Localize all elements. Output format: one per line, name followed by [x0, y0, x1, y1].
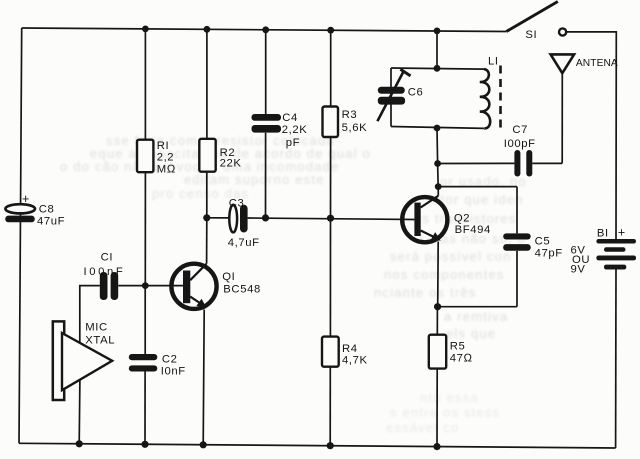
svg-text:C3: C3	[229, 198, 245, 210]
wire mic bottom to ground	[78, 380, 81, 444]
wire left rail	[19, 28, 22, 443]
svg-text:C8: C8	[39, 204, 55, 216]
node top rail C4	[262, 26, 269, 33]
svg-text:LI: LI	[488, 56, 499, 68]
svg-text:C4: C4	[282, 112, 298, 124]
switch S1 lever	[506, 2, 558, 32]
svg-text:47pF: 47pF	[535, 248, 563, 260]
svg-text:+: +	[618, 226, 626, 240]
battery B1	[571, 226, 637, 276]
svg-text:5,6K: 5,6K	[342, 122, 368, 134]
svg-text:+: +	[22, 192, 30, 206]
wire R1 top	[144, 29, 146, 140]
capacitor C3 (electrolytic)	[228, 198, 260, 250]
wire C1 right to Q1 base	[118, 285, 183, 287]
svg-text:I0nF: I0nF	[161, 366, 186, 378]
svg-text:2,2: 2,2	[157, 152, 175, 164]
svg-text:C2: C2	[162, 354, 178, 366]
node top rail tank	[434, 28, 441, 35]
node tank bottom	[434, 125, 441, 132]
svg-text:MIC: MIC	[85, 322, 108, 334]
capacitor C6 (trimmer)	[377, 69, 423, 121]
svg-text:CI: CI	[101, 252, 114, 264]
wire antenna lead	[561, 73, 563, 163]
wire R4 bottom to ground	[329, 367, 331, 446]
svg-text:Q2: Q2	[454, 213, 470, 225]
node ground C2	[141, 441, 148, 448]
wire C4 bottom to node	[265, 133, 267, 218]
svg-text:47Ω: 47Ω	[450, 353, 473, 365]
wire Q2 emitter down	[437, 242, 440, 307]
node ground R4	[327, 442, 334, 449]
wire right rail upper (S1 to battery +)	[566, 32, 616, 239]
svg-text:22K: 22K	[220, 158, 242, 170]
svg-text:BF494: BF494	[455, 224, 491, 236]
wire C5 bottom to emitter node	[438, 306, 517, 308]
wire C5 bottom branch	[516, 251, 518, 307]
capacitor C1	[84, 252, 126, 301]
svg-text:XTAL: XTAL	[85, 335, 115, 347]
node R2/C3	[203, 214, 210, 221]
svg-text:QI: QI	[222, 271, 235, 283]
wire C1 left from mic	[80, 286, 100, 344]
switch S1 contact	[559, 28, 566, 35]
svg-text:4,7K: 4,7K	[342, 355, 368, 367]
svg-text:I00pF: I00pF	[504, 138, 536, 150]
resistor R1	[137, 140, 176, 176]
svg-text:C6: C6	[408, 87, 424, 99]
svg-text:C5: C5	[535, 236, 551, 248]
svg-text:4,7uF: 4,7uF	[228, 237, 260, 249]
svg-text:R3: R3	[342, 109, 358, 121]
svg-text:I00nF: I00nF	[84, 266, 126, 278]
node top rail R2	[204, 26, 211, 33]
svg-text:47uF: 47uF	[37, 216, 65, 228]
wire C4 top	[265, 30, 267, 114]
capacitor C8 (electrolytic on left rail)	[5, 192, 65, 227]
resistor R2	[199, 139, 241, 172]
wire R5 top	[436, 307, 438, 335]
svg-text:SI: SI	[525, 29, 537, 41]
resistor R5	[429, 335, 473, 369]
resistor R3	[323, 107, 368, 138]
wire R3 top	[330, 30, 332, 106]
node ground Q1 emitter	[200, 441, 207, 448]
svg-text:pF: pF	[286, 137, 300, 149]
transistor Q2	[402, 196, 491, 242]
wire C7 to antenna lead	[532, 162, 562, 164]
svg-text:9V: 9V	[571, 264, 586, 276]
inductor L1	[480, 66, 501, 129]
wire tank bottom	[391, 127, 484, 129]
wire collector node to C5 top	[438, 186, 517, 188]
node Q2 emitter/R5	[434, 303, 441, 310]
svg-text:R4: R4	[342, 343, 358, 355]
node C5 branch	[435, 183, 442, 190]
node tank top	[434, 65, 441, 72]
capacitor C4	[252, 112, 308, 149]
wire R1 bottom to node C1	[144, 172, 146, 285]
svg-text:C7: C7	[512, 124, 528, 136]
node ground R5	[433, 443, 440, 450]
wire R2 bottom to node	[206, 172, 208, 218]
svg-text:2,2K: 2,2K	[282, 124, 308, 136]
node C4/signal	[262, 214, 269, 221]
node top rail R1	[142, 26, 149, 33]
wire tank left (C6 branch)	[390, 68, 392, 127]
svg-text:MΩ: MΩ	[157, 164, 176, 176]
wire Q1 emitter to ground	[203, 310, 204, 445]
capacitor C7	[504, 124, 536, 177]
wire R5 bottom to ground	[436, 369, 438, 447]
node ground mic	[76, 440, 83, 447]
svg-text:RI: RI	[157, 140, 170, 152]
wire node to C7	[438, 162, 515, 164]
wire Q1 collector up	[206, 218, 208, 264]
node R3/R4	[327, 215, 334, 222]
wire tank bottom to Q2 collector	[437, 128, 438, 196]
svg-text:BC548: BC548	[223, 284, 261, 296]
node C7 branch	[434, 160, 441, 167]
wire signal line R2 node to C3	[207, 217, 230, 219]
wire C5 top branch	[516, 187, 518, 234]
wire R4 top	[329, 218, 331, 336]
wire node C1 to C2	[144, 286, 146, 355]
wire bottom rail (ground)	[19, 443, 616, 448]
wire R3 bottom to node	[330, 137, 332, 218]
wire right rail lower (battery - to ground)	[615, 269, 617, 448]
capacitor C2	[129, 354, 186, 378]
svg-text:ANTENA: ANTENA	[576, 58, 618, 69]
wire signal line C3 to Q2 base	[248, 218, 415, 220]
wire C2 to ground	[144, 371, 146, 444]
capacitor C5	[503, 233, 563, 259]
wire tank top	[391, 68, 484, 69]
svg-text:BI: BI	[597, 228, 609, 240]
node top rail R3	[327, 27, 334, 34]
wire top rail to tank	[436, 31, 438, 68]
bleed-through text from page reverse	[106, 133, 335, 148]
resistor R4	[322, 337, 368, 367]
wire R2 top	[206, 29, 208, 139]
node C1/R1	[142, 282, 149, 289]
wire top rail	[22, 28, 507, 32]
svg-text:R5: R5	[450, 341, 466, 353]
microphone MIC XTAL	[53, 321, 115, 400]
transistor Q1	[171, 264, 260, 309]
antenna	[551, 54, 618, 73]
